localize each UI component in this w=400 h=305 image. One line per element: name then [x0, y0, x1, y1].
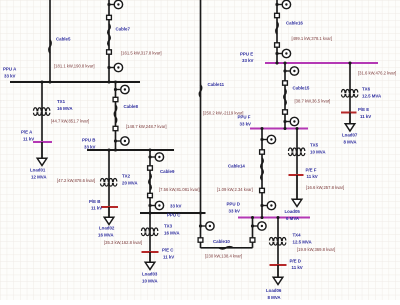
instrument circle bottom of Cable14 — [262, 205, 267, 207]
svg-text:Cable8: Cable8 — [124, 104, 139, 109]
svg-text:[161.5 kW,317.8 kvar]: [161.5 kW,317.8 kvar] — [121, 50, 162, 55]
svg-text:12.5 MVA: 12.5 MVA — [293, 239, 313, 244]
bus PPU E 33 kV — [265, 62, 378, 64]
transformer TX1 — [34, 108, 50, 111]
svg-text:10 MVA: 10 MVA — [142, 278, 158, 283]
instrument circle bottom of Cable16 — [277, 53, 282, 55]
svg-text:PPU D: PPU D — [227, 201, 240, 206]
instrument circle top of Cable14 — [262, 139, 267, 141]
instrument circle bottom of Cable15 — [285, 121, 290, 123]
node PPU C junctions — [148, 211, 151, 214]
bus P/E F 11 kV — [289, 174, 304, 176]
instrument circle top of Cable15 — [285, 70, 290, 72]
cable Cable15 — [284, 89, 286, 105]
wire Cable10 right riser — [252, 218, 254, 248]
bus P/E B 11 kV — [101, 206, 118, 208]
instrument circle top of Cable9 — [150, 156, 155, 158]
svg-text:TX5: TX5 — [310, 142, 319, 147]
bus PPU B 33 kV — [87, 149, 174, 151]
svg-text:8 MVA: 8 MVA — [268, 295, 282, 300]
svg-text:[181.1 kW,190.8 kvar]: [181.1 kW,190.8 kvar] — [54, 63, 95, 68]
svg-text:20 MVA: 20 MVA — [122, 180, 138, 185]
load Load02 — [108, 207, 110, 218]
cable Cable7 — [108, 24, 110, 46]
breaker CB upper Cable8 — [113, 97, 118, 101]
transformer TX6 — [342, 89, 358, 92]
load Load06 — [277, 265, 279, 278]
node PPU E junctions — [275, 61, 278, 64]
breaker CB upper Cable15 — [283, 81, 288, 85]
svg-text:[38.7 kW,36.5 kvar]: [38.7 kW,36.5 kvar] — [295, 98, 331, 103]
svg-text:TX1: TX1 — [57, 99, 66, 104]
breaker CB lower Cable7 — [107, 50, 112, 54]
svg-text:11 kV: 11 kV — [307, 174, 318, 179]
svg-text:PPU F: PPU F — [238, 114, 251, 119]
bus PPU C 33 kV — [140, 212, 206, 214]
wire Cable7 column — [108, 0, 110, 82]
svg-text:11 kV: 11 kV — [23, 136, 34, 141]
svg-text:16 MVA: 16 MVA — [57, 106, 73, 111]
wire Cable8 column — [115, 82, 117, 150]
svg-text:[148.7 kW,248.7 kvar]: [148.7 kW,248.7 kvar] — [126, 124, 167, 129]
svg-text:33 kV: 33 kV — [240, 121, 252, 126]
svg-text:Load07: Load07 — [342, 132, 358, 137]
node PPU D junctions — [251, 216, 254, 219]
node PPU B junctions — [107, 148, 110, 151]
breaker CB lower Cable16 — [275, 43, 280, 47]
breaker CB upper Cable9 — [148, 166, 153, 170]
svg-text:16 MVA: 16 MVA — [164, 230, 180, 235]
instrument circle left of Cable10 — [201, 225, 206, 227]
svg-text:8 MVA: 8 MVA — [344, 139, 358, 144]
transformer TX3 — [142, 228, 158, 231]
svg-text:Cable7: Cable7 — [116, 26, 131, 31]
svg-text:10 MVA: 10 MVA — [310, 149, 326, 154]
breaker CB left Cable10 — [198, 238, 203, 242]
svg-text:[16.6 kW,257.8 kvar]: [16.6 kW,257.8 kvar] — [306, 185, 344, 190]
svg-text:[1.09 kW,2.34 kvar]: [1.09 kW,2.34 kvar] — [217, 187, 253, 192]
cable Cable16 — [276, 22, 278, 34]
bus P/E E 11 kV — [341, 112, 357, 114]
cable Cable8 — [114, 105, 116, 123]
svg-text:[230 kW,138.4 kvar]: [230 kW,138.4 kvar] — [205, 253, 242, 258]
svg-text:Cable11: Cable11 — [208, 82, 225, 87]
cable Cable11 — [199, 85, 201, 97]
instrument circle top of Cable8 — [116, 89, 121, 91]
bus PPU D 33 kV — [238, 217, 310, 219]
svg-text:P/E A: P/E A — [21, 129, 33, 134]
svg-text:TX6: TX6 — [362, 86, 371, 91]
load Load03 — [149, 252, 151, 263]
load Load07 — [349, 113, 351, 125]
svg-text:[19.9 kW,369.8 kvar]: [19.9 kW,369.8 kvar] — [297, 247, 335, 252]
bus P/E C 11 kV — [142, 251, 159, 253]
svg-text:[44.7 kW,851.7 kvar]: [44.7 kW,851.7 kvar] — [51, 119, 89, 124]
wire Cable16 column — [276, 0, 278, 63]
load Load01 — [41, 142, 43, 159]
svg-text:PPU E: PPU E — [240, 51, 253, 56]
bus P/E A 11 kV — [33, 141, 52, 143]
instrument circle bottom of Cable8 — [116, 140, 121, 142]
wire TX5 branch — [296, 129, 298, 176]
svg-text:Load06: Load06 — [266, 288, 282, 293]
transformer TX2 — [101, 178, 117, 181]
bus P/E D 11 kV — [270, 264, 287, 266]
node PPU F junctions — [283, 127, 286, 130]
transformer TX4 — [270, 237, 286, 240]
cable Cable5 — [49, 40, 51, 53]
wire Cable11 feeder — [200, 0, 202, 248]
breaker CB upper Cable7 — [107, 15, 112, 19]
svg-text:[47.2 kW,878.6 kvar]: [47.2 kW,878.6 kvar] — [57, 178, 95, 183]
svg-text:11 kV: 11 kV — [163, 254, 174, 259]
svg-text:P/E B: P/E B — [89, 199, 100, 204]
svg-text:Cable16: Cable16 — [286, 20, 303, 25]
instrument circle right of Cable10 — [253, 225, 258, 227]
svg-text:PPU A: PPU A — [3, 66, 17, 71]
breaker CB lower Cable8 — [113, 126, 118, 130]
svg-text:Load03: Load03 — [142, 271, 158, 276]
svg-text:11 kV: 11 kV — [360, 114, 371, 119]
breaker CB right Cable10 — [250, 238, 255, 242]
wire TX2 branch — [108, 150, 110, 207]
cable Cable9 — [149, 174, 151, 191]
svg-text:33 kV: 33 kV — [84, 144, 96, 149]
svg-text:P/E F: P/E F — [306, 167, 317, 172]
svg-text:[31.6 kW,476.2 kvar]: [31.6 kW,476.2 kvar] — [358, 70, 396, 75]
svg-text:12.5 MVA: 12.5 MVA — [362, 93, 382, 98]
svg-text:PPU C: PPU C — [167, 213, 181, 218]
svg-text:Load02: Load02 — [99, 225, 115, 230]
svg-text:33 kV: 33 kV — [242, 58, 254, 63]
svg-text:6 MVA: 6 MVA — [286, 216, 300, 221]
wire Cable9 column — [149, 150, 151, 213]
instrument circle top of Cable7 — [109, 4, 114, 6]
svg-text:Cable10: Cable10 — [213, 239, 230, 244]
wire Cable10 horizontal run — [201, 247, 253, 249]
svg-text:Cable14: Cable14 — [228, 163, 245, 168]
load Load05 — [296, 175, 298, 200]
wire Cable15 column — [284, 63, 286, 129]
cable Cable14 — [261, 158, 263, 180]
svg-text:PPU B: PPU B — [82, 137, 95, 142]
instrument circle bottom of Cable9 — [150, 205, 155, 207]
breaker CB upper Cable16 — [275, 13, 280, 17]
svg-text:11 kV: 11 kV — [91, 205, 102, 210]
svg-text:16 MVA: 16 MVA — [98, 232, 114, 237]
instrument circle bottom of Cable7 — [109, 67, 114, 69]
svg-text:Load05: Load05 — [285, 209, 301, 214]
svg-text:[7.56 kW,81.081 kvar]: [7.56 kW,81.081 kvar] — [159, 187, 200, 192]
svg-text:P/E C: P/E C — [162, 247, 174, 252]
svg-text:12 MVA: 12 MVA — [31, 174, 47, 179]
wire Cable14 column — [261, 129, 263, 218]
svg-text:Cable15: Cable15 — [293, 85, 310, 90]
bus PPU A 33 kV — [10, 81, 140, 83]
svg-text:33 kV: 33 kV — [170, 203, 182, 208]
wire TX4 branch — [277, 218, 279, 266]
node PPU A junctions — [48, 80, 51, 83]
svg-text:33 kV: 33 kV — [4, 73, 16, 78]
svg-text:33 kV: 33 kV — [229, 208, 241, 213]
wire TX6 branch — [349, 63, 351, 113]
svg-text:TX2: TX2 — [122, 173, 131, 178]
svg-text:11 kV: 11 kV — [292, 265, 303, 270]
bus PPU F 33 kV — [250, 128, 308, 130]
svg-text:TX3: TX3 — [164, 223, 173, 228]
svg-text:[35.3 kW,162.8 kvar]: [35.3 kW,162.8 kvar] — [104, 240, 142, 245]
svg-text:Cable5: Cable5 — [56, 36, 71, 41]
svg-text:P/E E: P/E E — [358, 107, 369, 112]
svg-text:Cable9: Cable9 — [160, 169, 175, 174]
breaker CB lower Cable9 — [148, 193, 153, 197]
cable Cable10 — [219, 247, 233, 249]
breaker CB lower Cable14 — [260, 188, 265, 192]
wire TX3 branch — [149, 213, 151, 252]
wire feeder to PPU A — [49, 0, 51, 82]
breaker CB upper Cable14 — [260, 150, 265, 154]
svg-text:Load01: Load01 — [30, 167, 46, 172]
transformer TX5 — [289, 148, 305, 151]
svg-text:TX4: TX4 — [293, 232, 302, 237]
instrument circle top of Cable16 — [277, 4, 282, 6]
svg-text:[499.1 kW,378.1 kvar]: [499.1 kW,378.1 kvar] — [292, 36, 333, 41]
svg-text:P/E D: P/E D — [290, 258, 301, 263]
breaker CB lower Cable15 — [283, 110, 288, 114]
wire TX1 branch — [41, 82, 43, 142]
